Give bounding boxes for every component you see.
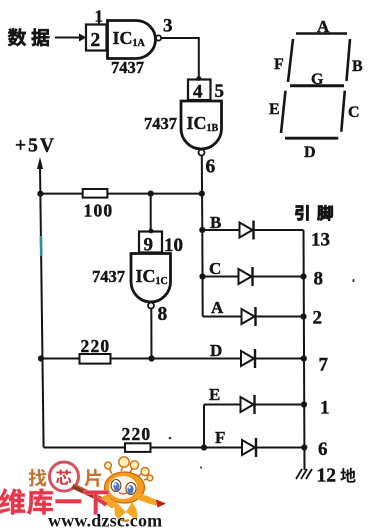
- diode D6 (segment F): [242, 438, 256, 457]
- svg-text:A: A: [211, 298, 224, 317]
- svg-text:C: C: [209, 259, 221, 278]
- wire: E branch vertical: [203, 405, 205, 448]
- svg-text:E: E: [209, 385, 220, 404]
- svg-text:7437: 7437: [92, 267, 125, 286]
- svg-text:7: 7: [319, 355, 329, 376]
- junction: BCA bus at C row: [199, 273, 205, 279]
- diode D4 (segment D): [241, 349, 255, 368]
- wire: IC1A pin3 to IC1B input: [162, 38, 202, 81]
- junction: rail x IC1C branch: [148, 191, 154, 197]
- watermark text 维库一下: [0, 489, 109, 515]
- junction: BCA bus at B row: [199, 227, 205, 233]
- wire: left +5V vertical bus: [40, 166, 44, 448]
- svg-text:12: 12: [317, 466, 337, 487]
- pin 1 label and stub (IC1A): [95, 7, 104, 26]
- +5V arrow: [37, 157, 43, 169]
- svg-text:4: 4: [193, 82, 203, 103]
- svg-text:220: 220: [122, 424, 152, 444]
- svg-text:D: D: [304, 144, 316, 161]
- wire: IC1B pin6 down to BCA bus: [201, 156, 204, 231]
- junction: right bus at A row: [300, 313, 306, 319]
- scan speck near pin 8: [353, 279, 355, 282]
- seven-segment display: segment C: [341, 91, 359, 132]
- svg-text:100: 100: [84, 201, 114, 221]
- wire: rail down to IC1C input box: [149, 194, 154, 234]
- watermark text 片: [84, 469, 101, 487]
- wire: E row: [204, 404, 304, 406]
- wire: data input to IC1A pin2 box, with arrowhead: [55, 34, 87, 42]
- svg-text:6: 6: [318, 439, 328, 460]
- teal scan artifact on left bus: [40, 236, 43, 256]
- resistor R2 220 (D row): [80, 336, 111, 364]
- scan speck near 220 label: [169, 437, 172, 440]
- wire: IC1C pin8 down to D row: [150, 309, 152, 359]
- svg-text:+5V: +5V: [15, 136, 56, 157]
- svg-text:B: B: [352, 58, 363, 75]
- diode D3 (segment A): [242, 307, 256, 326]
- svg-text:www.dzsc.com: www.dzsc.com: [48, 511, 162, 528]
- seven-segment display: segment E: [269, 91, 286, 133]
- junction: rail x IC1B output line: [199, 191, 205, 197]
- pin 9 input box (IC1C): [139, 232, 162, 256]
- watermark magnifier with 芯: [50, 462, 111, 504]
- junction: right bus at F row: [301, 444, 307, 450]
- resistor R1 100: [83, 189, 114, 221]
- junction: right bus at C row: [300, 273, 306, 279]
- wire: B row: [202, 229, 303, 231]
- svg-text:2: 2: [91, 30, 101, 51]
- wire: A row: [203, 316, 304, 318]
- svg-text:F: F: [274, 56, 284, 73]
- seven-segment display: segment A: [296, 17, 347, 36]
- NAND gate IC1B: [181, 101, 222, 156]
- junction: D row x IC1C output: [148, 355, 154, 361]
- ground pin label 12 地: [317, 466, 356, 487]
- junction: left bus at D row: [38, 355, 44, 361]
- wire: right pin bus vertical: [304, 230, 305, 470]
- watermark text 找: [28, 469, 46, 487]
- svg-text:13: 13: [311, 230, 330, 251]
- scan speck above E label: [200, 466, 202, 468]
- NAND gate IC1A: [108, 21, 162, 59]
- diode D5 (segment E): [241, 395, 255, 414]
- wire: D row: [41, 358, 304, 360]
- svg-text:D: D: [210, 341, 222, 360]
- NAND gate IC1C: [131, 254, 171, 309]
- svg-text:7437: 7437: [111, 58, 144, 77]
- svg-text:5: 5: [215, 81, 225, 102]
- diode D1 (segment B): [240, 221, 254, 240]
- seven-segment display: segment G: [290, 71, 344, 88]
- seven-segment display: segment D: [285, 138, 338, 161]
- seven-segment display: segment F: [274, 39, 293, 82]
- watermark mascot: [101, 457, 166, 521]
- svg-text:1: 1: [320, 398, 330, 419]
- svg-text:F: F: [215, 428, 225, 447]
- wire: BCA left bus vertical: [201, 230, 203, 317]
- wire: +5V rail horizontal: [40, 193, 201, 195]
- ground symbol: [296, 469, 312, 479]
- svg-text:2: 2: [313, 308, 323, 329]
- junction: left bus x +5V rail: [37, 191, 43, 197]
- junction: F row x E branch: [201, 444, 207, 450]
- svg-text:8: 8: [314, 269, 324, 290]
- net label 数据 (data input): [8, 28, 49, 46]
- pin 4 input box (IC1B): [188, 80, 211, 103]
- wire: F row from left bus: [44, 447, 305, 449]
- svg-text:C: C: [348, 104, 360, 121]
- svg-text:220: 220: [81, 336, 111, 356]
- svg-text:3: 3: [163, 16, 173, 37]
- diode D2 (segment C): [239, 267, 253, 286]
- junction: right bus at E row: [301, 401, 307, 407]
- watermark: dzsc.com logo: [0, 457, 166, 528]
- label 引脚 (pins): [295, 205, 332, 220]
- resistor R3 220 (F row): [122, 424, 152, 452]
- wire: C row: [203, 276, 304, 278]
- pin 2 input box (IC1A): [86, 25, 107, 52]
- junction: right bus at D row: [301, 355, 307, 361]
- seven-segment display: segment B: [347, 39, 364, 81]
- svg-text:8: 8: [158, 304, 168, 325]
- svg-text:6: 6: [206, 157, 216, 178]
- svg-text:E: E: [269, 101, 280, 118]
- svg-text:7437: 7437: [144, 114, 177, 133]
